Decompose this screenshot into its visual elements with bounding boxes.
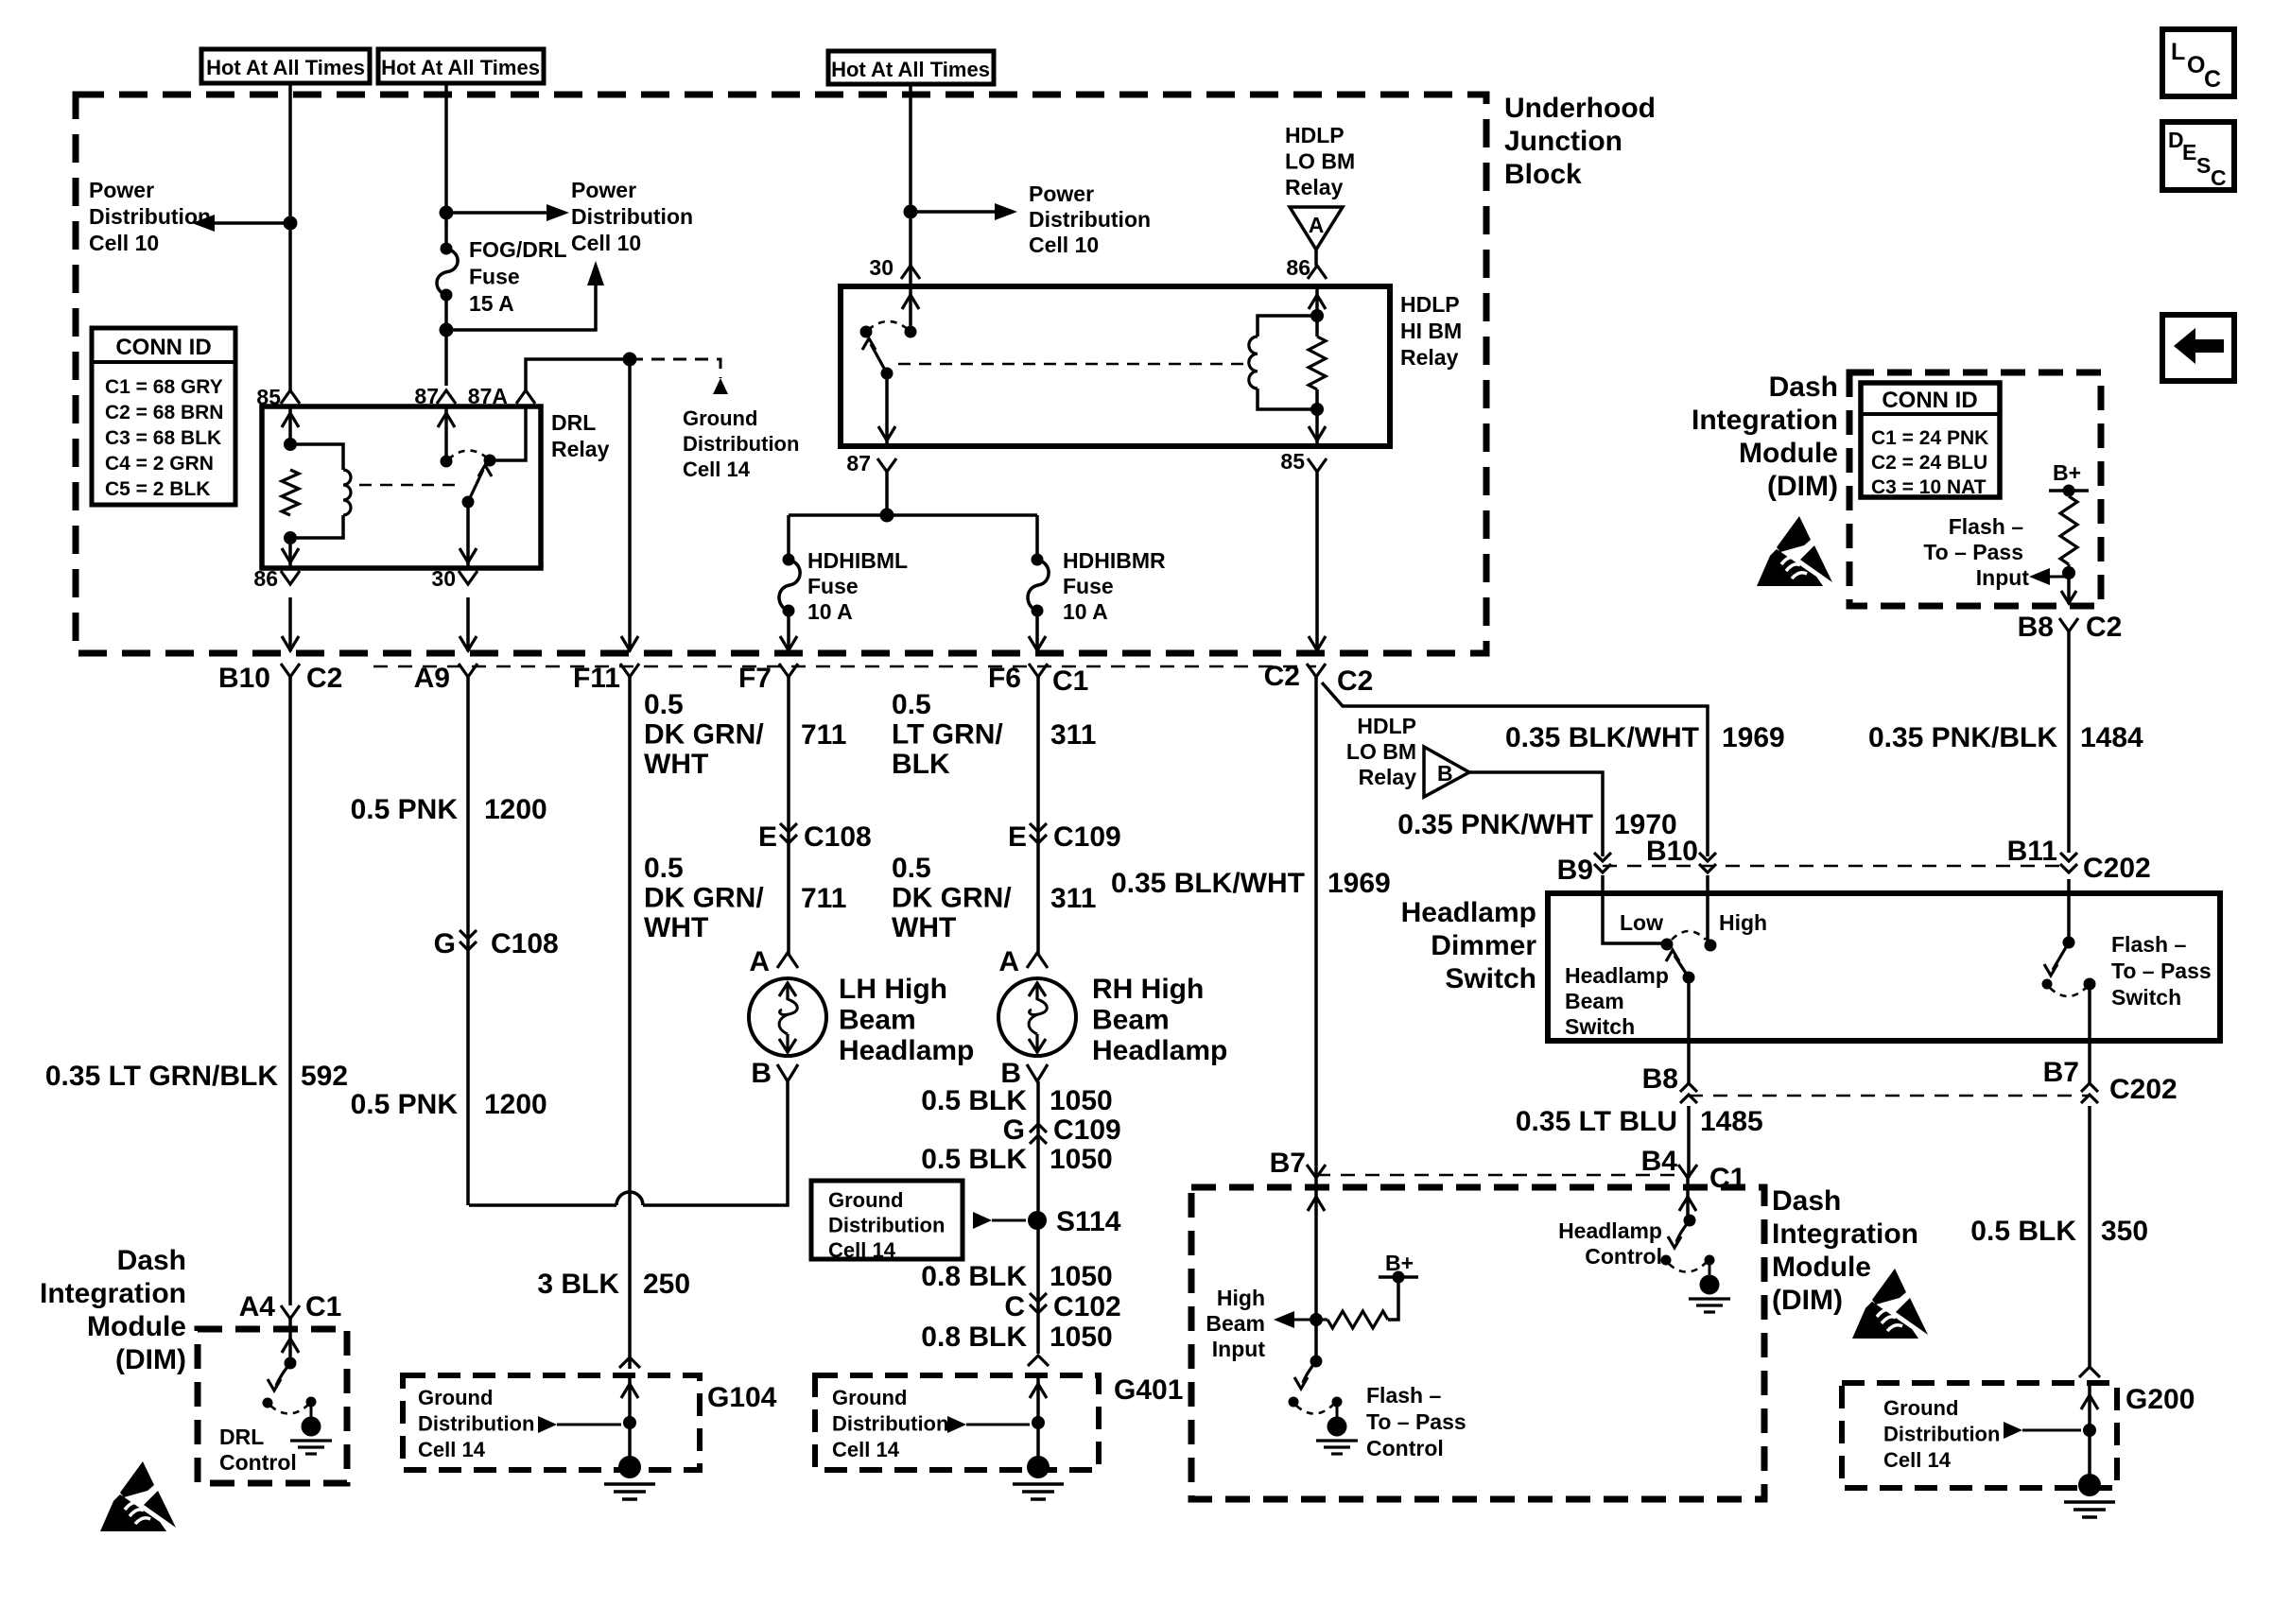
- svg-text:Ground: Ground: [828, 1188, 903, 1212]
- svg-text:1969: 1969: [1722, 722, 1785, 753]
- wire 87 to fuse tee: [885, 472, 889, 515]
- svg-text:WHT: WHT: [644, 749, 708, 780]
- headlamp control ground joystick: [1705, 1255, 1715, 1266]
- svg-text:311: 311: [1050, 719, 1096, 751]
- svg-text:250: 250: [643, 1269, 690, 1300]
- junction node F11/ground distribution: [623, 353, 637, 367]
- svg-text:Block: Block: [1504, 159, 1582, 190]
- HI BM coil top node: [1310, 309, 1324, 322]
- high beam input node: [1310, 1313, 1323, 1326]
- svg-text:Relay: Relay: [1285, 175, 1344, 199]
- svg-text:30: 30: [869, 255, 894, 280]
- DRL control ground joystick: [306, 1397, 317, 1408]
- svg-text:F11: F11: [573, 663, 620, 694]
- svg-text:1050: 1050: [1050, 1085, 1113, 1116]
- pin 85 connector: [281, 390, 300, 404]
- svg-text:1969: 1969: [1327, 868, 1391, 899]
- svg-text:Hot At All Times: Hot At All Times: [831, 58, 990, 81]
- svg-text:Flash –: Flash –: [1366, 1383, 1441, 1408]
- beam switch arm: [1674, 956, 1689, 977]
- HI BM wire 30 internal: [909, 286, 912, 332]
- svg-text:Integration: Integration: [1692, 405, 1838, 436]
- HI BM coil branch: [1258, 316, 1317, 337]
- connector into G104: [619, 1357, 640, 1368]
- G401 arrow link: [947, 1416, 966, 1433]
- svg-text:S114: S114: [1056, 1206, 1121, 1237]
- svg-text:C202: C202: [2109, 1074, 2178, 1105]
- wire from Hot At All Times 3 to HDLP HI BM relay pin 30: [909, 84, 912, 286]
- svg-text:1200: 1200: [484, 794, 547, 825]
- Dash Integration Module box (DRL control): [198, 1329, 347, 1483]
- svg-text:Power: Power: [571, 178, 636, 202]
- svg-text:1050: 1050: [1050, 1261, 1113, 1292]
- Dash Integration Module box (bottom right): [1191, 1187, 1764, 1499]
- dimmer wire B9 internal: [1603, 875, 1661, 943]
- ground G200 box: [1842, 1383, 2117, 1488]
- G401 internal wire: [1036, 1373, 1040, 1467]
- svg-text:Cell 14: Cell 14: [832, 1438, 900, 1461]
- flash input node: [2062, 566, 2075, 579]
- svg-text:Fuse: Fuse: [807, 574, 859, 598]
- svg-text:S: S: [2196, 153, 2211, 178]
- svg-text:1200: 1200: [484, 1089, 547, 1120]
- svg-text:(DIM): (DIM): [115, 1344, 186, 1375]
- svg-text:C3 = 68 BLK: C3 = 68 BLK: [105, 427, 221, 449]
- svg-text:A: A: [749, 946, 770, 977]
- svg-text:E: E: [758, 821, 777, 853]
- junction node on wire: [904, 205, 918, 219]
- svg-text:C102: C102: [1053, 1291, 1121, 1322]
- svg-text:B8: B8: [1642, 1063, 1678, 1095]
- DRL relay switch pivot: [462, 496, 475, 509]
- G200 internal wire: [2088, 1386, 2091, 1485]
- G401 junction node: [1032, 1416, 1045, 1429]
- pin 30 connector: [459, 571, 477, 584]
- arrow to ground distribution: [713, 378, 728, 394]
- svg-text:86: 86: [1286, 255, 1310, 280]
- svg-text:Switch: Switch: [1565, 1014, 1635, 1039]
- svg-text:Module: Module: [1739, 438, 1838, 469]
- svg-text:CONN ID: CONN ID: [1882, 388, 1977, 413]
- svg-text:Ground: Ground: [1883, 1396, 1958, 1420]
- CONN ID table (DIM): [1861, 383, 2000, 497]
- svg-text:350: 350: [2101, 1216, 2148, 1247]
- svg-text:C1: C1: [1052, 665, 1088, 697]
- svg-text:Cell 14: Cell 14: [418, 1438, 486, 1461]
- svg-text:C1: C1: [1709, 1163, 1745, 1194]
- svg-text:1050: 1050: [1050, 1144, 1113, 1175]
- svg-text:(DIM): (DIM): [1767, 471, 1838, 502]
- svg-text:A: A: [998, 946, 1019, 977]
- svg-text:C2: C2: [2086, 612, 2122, 643]
- svg-text:WHT: WHT: [892, 912, 956, 943]
- arrow up to Power Distribution: [587, 261, 604, 285]
- Underhood Junction Block dashed boundary: [76, 95, 1486, 653]
- svg-text:G: G: [434, 928, 456, 959]
- connector into G401: [1028, 1356, 1049, 1366]
- svg-text:F7: F7: [738, 663, 772, 694]
- pin B connector (LH): [777, 1064, 798, 1081]
- Dash Integration Module box (top right): [1849, 372, 2101, 606]
- svg-text:Input: Input: [1212, 1337, 1266, 1361]
- svg-text:Fuse: Fuse: [469, 265, 520, 289]
- wire 30 to A9 connector: [466, 597, 470, 651]
- wire 87A to ground distribution node: [526, 359, 630, 390]
- G200 junction node: [2083, 1424, 2096, 1437]
- svg-text:B10: B10: [1646, 836, 1698, 867]
- svg-text:Distribution: Distribution: [571, 204, 693, 229]
- svg-text:B+: B+: [2053, 460, 2081, 485]
- svg-text:Control: Control: [1585, 1244, 1662, 1269]
- HI BM coil bottom node: [1310, 403, 1324, 416]
- beam switch pivot: [1683, 972, 1695, 984]
- headlamp control wire: [1686, 1178, 1690, 1220]
- svg-text:1484: 1484: [2080, 722, 2143, 753]
- Hot At All Times box 1: [201, 49, 370, 83]
- svg-text:1485: 1485: [1700, 1106, 1763, 1137]
- svg-text:A: A: [1309, 213, 1325, 237]
- DRL relay contact 87 node: [441, 456, 453, 468]
- svg-text:DK GRN/: DK GRN/: [644, 719, 764, 751]
- DRL relay coil: [343, 470, 351, 515]
- wire B10 to DIM A4: [288, 677, 292, 1305]
- svg-text:Distribution: Distribution: [89, 204, 211, 229]
- DRL relay resistor: [282, 470, 299, 515]
- svg-text:LH High: LH High: [839, 974, 947, 1005]
- beam switch dashed arc: [1672, 931, 1706, 940]
- pin 87 connector (HI BM): [877, 458, 896, 472]
- svg-text:FOG/DRL: FOG/DRL: [469, 237, 567, 262]
- svg-text:B: B: [751, 1058, 772, 1089]
- svg-text:0.5: 0.5: [644, 689, 684, 720]
- ESD symbol (bottom-right DIM): [1852, 1269, 1928, 1339]
- HI BM wire 85 internal: [1315, 389, 1319, 446]
- svg-text:B+: B+: [1385, 1251, 1414, 1275]
- svg-text:10 A: 10 A: [1063, 599, 1108, 624]
- arrow Power Distribution left: [192, 215, 215, 232]
- svg-text:0.5 BLK: 0.5 BLK: [921, 1085, 1027, 1116]
- fuse HDHIBMR 10 A: [1032, 554, 1044, 566]
- G200 ground symbol: [2078, 1474, 2101, 1496]
- DRL relay coil bottom node: [284, 531, 297, 544]
- DIM high beam input wire: [1314, 1178, 1318, 1361]
- svg-text:30: 30: [431, 566, 456, 591]
- svg-text:Dash: Dash: [1772, 1185, 1841, 1217]
- headlamp control node: [1684, 1215, 1696, 1227]
- svg-text:592: 592: [301, 1061, 348, 1092]
- svg-text:Fuse: Fuse: [1063, 574, 1114, 598]
- svg-text:Distribution: Distribution: [683, 432, 799, 456]
- svg-text:C2: C2: [1264, 661, 1300, 692]
- flash-to-pass top contact: [2063, 937, 2075, 949]
- svg-text:Dash: Dash: [117, 1245, 186, 1276]
- svg-text:C202: C202: [2083, 853, 2151, 884]
- svg-text:C1 = 68 GRY: C1 = 68 GRY: [105, 376, 223, 398]
- HI BM wire 86 internal: [1315, 286, 1319, 337]
- svg-text:Hot At All Times: Hot At All Times: [381, 56, 540, 79]
- svg-text:High: High: [1719, 910, 1767, 935]
- High contact: [1705, 940, 1717, 952]
- DRL relay switch arm: [468, 470, 483, 502]
- G104 internal wire: [628, 1374, 632, 1467]
- pin 87 connector: [437, 390, 456, 404]
- Low contact: [1661, 939, 1674, 951]
- svg-text:Cell 14: Cell 14: [1883, 1448, 1952, 1472]
- B+ bar (flash input): [2049, 489, 2089, 492]
- svg-text:0.35 LT GRN/BLK: 0.35 LT GRN/BLK: [45, 1061, 278, 1092]
- svg-text:C108: C108: [491, 928, 559, 959]
- DRL relay wire 86 internal: [288, 538, 292, 568]
- HI BM switch dashed arc: [868, 321, 909, 330]
- svg-text:Cell 10: Cell 10: [1029, 233, 1099, 257]
- svg-text:Cell 14: Cell 14: [683, 458, 751, 481]
- svg-text:DRL: DRL: [219, 1425, 264, 1449]
- dimmer wire B10 internal: [1706, 875, 1709, 945]
- CONN ID table (Underhood): [92, 328, 235, 505]
- G200 arrow link: [2004, 1422, 2022, 1439]
- wire F11 down to G104: [628, 677, 632, 1369]
- svg-text:85: 85: [256, 385, 281, 409]
- svg-text:B7: B7: [1270, 1148, 1306, 1179]
- svg-text:Ground: Ground: [418, 1386, 493, 1409]
- svg-text:C5 = 2 BLK: C5 = 2 BLK: [105, 478, 210, 500]
- svg-text:C2: C2: [306, 663, 342, 694]
- svg-text:0.35 LT BLU: 0.35 LT BLU: [1516, 1106, 1677, 1137]
- svg-text:Distribution: Distribution: [832, 1412, 948, 1436]
- svg-text:Beam: Beam: [1092, 1005, 1170, 1036]
- Hot At All Times box 2: [378, 49, 544, 83]
- flash-to-pass dashed arc: [2050, 988, 2086, 996]
- junction node on wire A: [284, 216, 298, 231]
- left branch to HDHIBML fuse: [787, 515, 790, 560]
- svg-text:Module: Module: [1772, 1252, 1871, 1283]
- DRL relay coil branch wires: [290, 444, 343, 470]
- LOC reference box: [2162, 29, 2234, 96]
- ground G104 box: [403, 1375, 700, 1470]
- svg-text:Beam: Beam: [839, 1005, 916, 1036]
- svg-text:G104: G104: [707, 1382, 777, 1413]
- svg-text:0.5: 0.5: [892, 853, 931, 884]
- back arrow box: [2162, 315, 2234, 381]
- pin 85 connector (HI BM): [1308, 458, 1327, 472]
- arrow to S114: [973, 1212, 992, 1229]
- svg-text:Hot At All Times: Hot At All Times: [206, 56, 365, 79]
- svg-text:LO BM: LO BM: [1285, 149, 1355, 174]
- svg-text:0.5: 0.5: [644, 853, 684, 884]
- headlamp control dashed arc: [1669, 1263, 1706, 1272]
- HI BM contact node left: [860, 326, 873, 338]
- svg-text:Dash: Dash: [1769, 371, 1838, 403]
- wire flash contact to B7: [2088, 984, 2091, 1083]
- svg-text:3 BLK: 3 BLK: [537, 1269, 619, 1300]
- svg-text:15 A: 15 A: [469, 291, 514, 316]
- svg-text:Power: Power: [89, 178, 154, 202]
- svg-text:CONN ID: CONN ID: [115, 335, 211, 360]
- svg-text:Flash –: Flash –: [2111, 932, 2186, 957]
- tee horizontal wire: [789, 513, 1037, 517]
- svg-text:Distribution: Distribution: [828, 1214, 945, 1237]
- fuse HDHIBML 10 A: [783, 554, 795, 566]
- svg-text:Dimmer: Dimmer: [1431, 930, 1536, 961]
- high beam input resistor: [1316, 1318, 1327, 1321]
- svg-text:Headlamp: Headlamp: [839, 1035, 974, 1066]
- flash control switch arm: [1303, 1361, 1316, 1383]
- DRL relay 87A internal wire: [490, 406, 526, 460]
- wire F11 down: [628, 359, 632, 651]
- wire from Hot At All Times 2 to FOG/DRL fuse: [444, 83, 448, 249]
- svg-text:Ground: Ground: [832, 1386, 907, 1409]
- svg-text:Headlamp: Headlamp: [1092, 1035, 1227, 1066]
- svg-text:Cell 10: Cell 10: [89, 231, 159, 255]
- G104 junction node: [623, 1416, 636, 1429]
- svg-text:1050: 1050: [1050, 1322, 1113, 1353]
- svg-text:0.8 BLK: 0.8 BLK: [921, 1322, 1027, 1353]
- LH headlamp ground wire with corner: [643, 1081, 788, 1205]
- wire C2 down to B7: [1314, 677, 1318, 1178]
- flash control contact: [1289, 1397, 1299, 1408]
- HDLP HI BM Relay box: [841, 286, 1390, 446]
- svg-text:711: 711: [801, 883, 846, 914]
- tee junction node: [880, 509, 894, 523]
- svg-text:HDLP: HDLP: [1285, 123, 1345, 147]
- wire flash input to B8: [2067, 573, 2071, 604]
- svg-text:Switch: Switch: [1445, 963, 1536, 994]
- DRL control switch node: [285, 1357, 297, 1370]
- svg-text:86: 86: [253, 566, 278, 591]
- svg-text:87: 87: [846, 451, 871, 475]
- svg-text:O: O: [2187, 52, 2205, 78]
- svg-text:0.5 BLK: 0.5 BLK: [1970, 1216, 2076, 1247]
- svg-text:C4 = 2 GRN: C4 = 2 GRN: [105, 453, 214, 475]
- HDLP LO BM Relay B triangle: [1424, 747, 1469, 797]
- svg-text:C: C: [1004, 1291, 1025, 1322]
- svg-text:Relay: Relay: [1400, 345, 1459, 370]
- HI BM armature dashed link: [898, 363, 1250, 366]
- svg-text:B8: B8: [2018, 612, 2054, 643]
- flash input resistor: [2060, 496, 2077, 564]
- svg-text:(DIM): (DIM): [1772, 1285, 1843, 1316]
- ESD symbol (bottom-left DIM): [100, 1461, 176, 1531]
- svg-text:L: L: [2171, 39, 2185, 65]
- svg-text:A4: A4: [239, 1291, 276, 1322]
- svg-text:Junction: Junction: [1504, 126, 1622, 157]
- svg-text:C2 = 24 BLU: C2 = 24 BLU: [1871, 452, 1987, 474]
- fuse FOG/DRL 15 A: [441, 243, 453, 255]
- DRL relay coil top node: [284, 438, 297, 451]
- svg-text:Switch: Switch: [2111, 985, 2181, 1010]
- wire B8 down to B11: [2067, 631, 2071, 853]
- svg-text:Beam: Beam: [1565, 989, 1624, 1013]
- svg-text:Ground: Ground: [683, 406, 757, 430]
- svg-text:RH High: RH High: [1092, 974, 1204, 1005]
- headlamp control contact: [1661, 1255, 1672, 1266]
- B+ bar (high beam): [1379, 1275, 1418, 1279]
- flash-to-pass right contact: [2084, 978, 2096, 991]
- svg-text:0.5 PNK: 0.5 PNK: [351, 1089, 459, 1120]
- svg-text:C1 = 24 PNK: C1 = 24 PNK: [1871, 427, 1988, 449]
- svg-text:C108: C108: [804, 821, 872, 853]
- wire B7 to G200: [2088, 1106, 2091, 1369]
- connector C2/C1 dashed line: [373, 665, 1316, 668]
- svg-text:C2: C2: [1337, 665, 1373, 697]
- DIM DRL wire: [288, 1319, 292, 1363]
- svg-text:87A: 87A: [468, 384, 508, 408]
- branch C2 to dimmer switch: [1322, 682, 1708, 856]
- flash input arrow: [2029, 568, 2050, 585]
- RH High Beam Headlamp bulb: [998, 978, 1076, 1056]
- svg-text:DK GRN/: DK GRN/: [892, 883, 1012, 914]
- svg-text:DRL: DRL: [551, 410, 596, 435]
- svg-text:0.5 PNK: 0.5 PNK: [351, 794, 459, 825]
- svg-text:HDHIBMR: HDHIBMR: [1063, 548, 1166, 573]
- svg-text:C: C: [2211, 165, 2227, 190]
- svg-text:Integration: Integration: [40, 1278, 186, 1309]
- pin A connector (RH): [1027, 953, 1048, 968]
- flash-to-pass switch arm: [2053, 942, 2069, 970]
- DRL relay wire 85 internal: [288, 406, 292, 444]
- DRL relay wire 87 internal: [444, 406, 448, 461]
- svg-text:Cell 14: Cell 14: [828, 1238, 896, 1262]
- svg-text:0.35 PNK/BLK: 0.35 PNK/BLK: [1868, 722, 2057, 753]
- connector row C202 dashed (B8/B7): [1689, 1095, 2090, 1097]
- G104 ground symbol: [618, 1456, 641, 1478]
- svg-text:Relay: Relay: [1359, 765, 1417, 789]
- DRL control switch arm: [276, 1363, 290, 1386]
- pin B connector (RH): [1027, 1064, 1048, 1081]
- svg-text:0.35 PNK/WHT: 0.35 PNK/WHT: [1397, 809, 1593, 840]
- svg-text:Low: Low: [1620, 910, 1663, 935]
- pin A connector (LH): [777, 953, 798, 968]
- pin 86 connector: [281, 571, 300, 584]
- svg-text:LO BM: LO BM: [1346, 739, 1416, 764]
- connector row C1 dashed (B7/B4): [1316, 1174, 1691, 1177]
- svg-text:HDHIBML: HDHIBML: [807, 548, 908, 573]
- HI BM switch arm: [871, 344, 887, 373]
- G401 ground symbol: [1027, 1456, 1050, 1478]
- svg-text:B9: B9: [1557, 855, 1593, 886]
- svg-text:B7: B7: [2043, 1057, 2079, 1088]
- wire F7 down: [787, 677, 790, 955]
- svg-text:C109: C109: [1053, 821, 1121, 853]
- DRL relay switch dashed arc: [448, 450, 488, 459]
- svg-text:To – Pass: To – Pass: [2111, 959, 2212, 983]
- pin 87A connector: [516, 390, 535, 404]
- svg-text:Headlamp: Headlamp: [1558, 1218, 1662, 1243]
- svg-text:711: 711: [801, 719, 846, 751]
- HI BM coil: [1249, 337, 1258, 389]
- svg-text:Input: Input: [1976, 565, 2030, 590]
- dimmer wire B11 internal: [2067, 879, 2071, 942]
- svg-text:E: E: [2182, 140, 2196, 164]
- svg-text:Underhood: Underhood: [1504, 93, 1656, 124]
- wire below FOG/DRL fuse to pin 87: [444, 295, 448, 386]
- wire A9 down to junction corner: [466, 677, 470, 1205]
- svg-text:To – Pass: To – Pass: [1366, 1409, 1466, 1434]
- connector row C202 dashed (B9/B10/B11): [1603, 865, 2069, 868]
- wire B triangle to B9: [1469, 772, 1603, 856]
- Ground Distribution Cell 14 box (S114): [811, 1181, 963, 1259]
- headlamp control arm: [1676, 1220, 1690, 1242]
- arrow Power Distribution right: [547, 204, 569, 221]
- right branch to HDHIBMR fuse: [1035, 515, 1039, 560]
- svg-text:High: High: [1217, 1286, 1265, 1310]
- svg-text:C2 = 68 BRN: C2 = 68 BRN: [105, 402, 223, 423]
- svg-text:Power: Power: [1029, 181, 1094, 206]
- svg-text:E: E: [1008, 821, 1027, 853]
- svg-text:BLK: BLK: [892, 749, 950, 780]
- wire beam switch to B8: [1687, 977, 1691, 1083]
- svg-text:Cell 10: Cell 10: [571, 231, 641, 255]
